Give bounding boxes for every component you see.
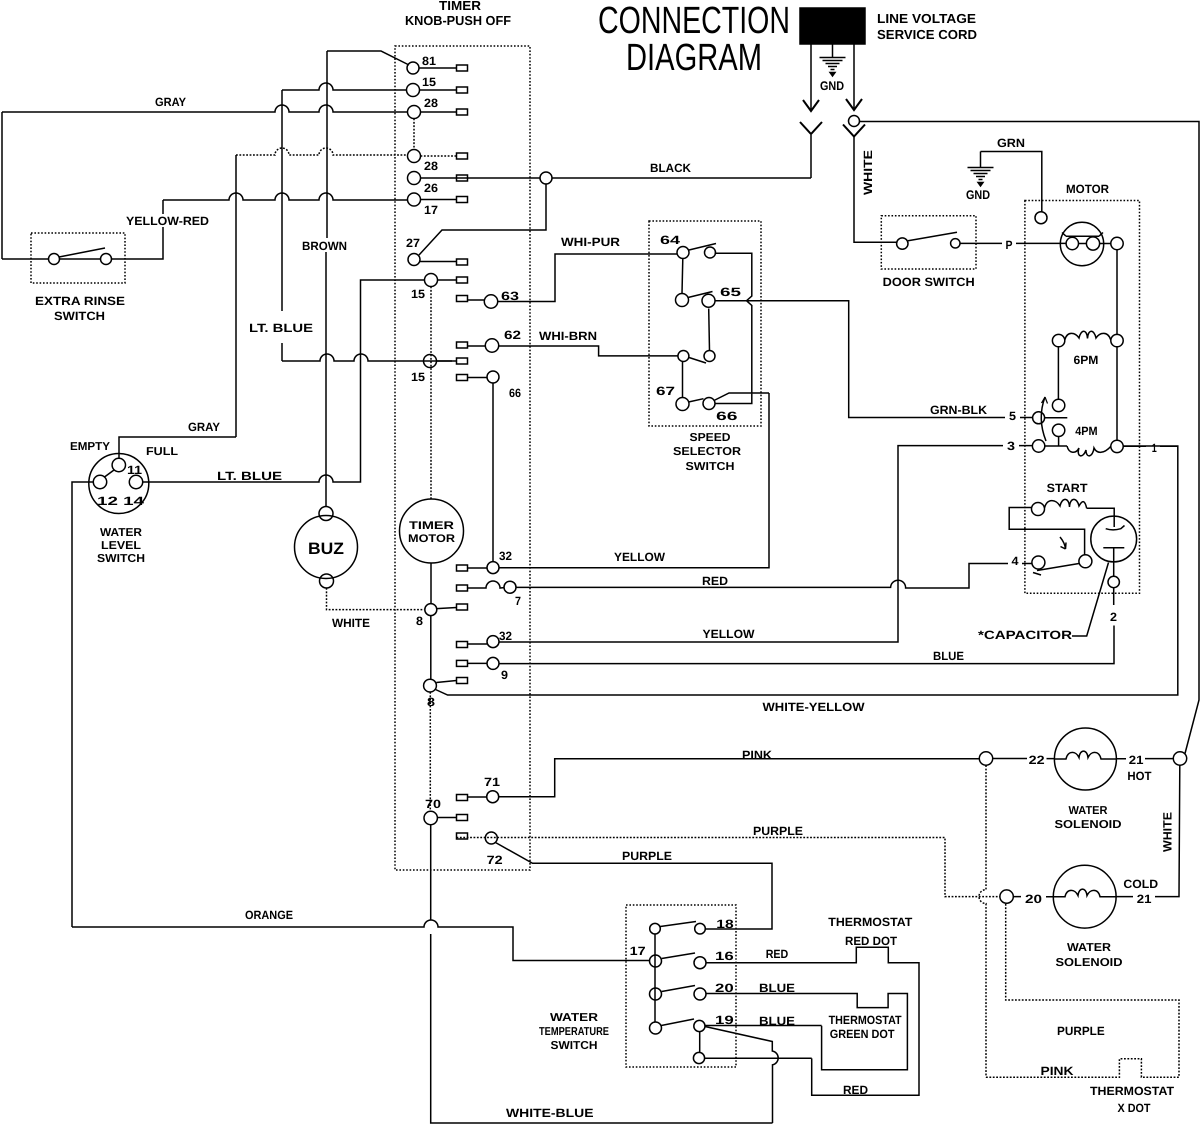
wire 15 mid down to timer motor [430,287,432,500]
wire PINK 22 to hot solenoid [993,758,1055,760]
wire BLACK drop [810,135,812,178]
door switch box [881,216,976,269]
svg-text:PURPLE: PURPLE [622,849,672,863]
wire BLUE 19 [705,1025,822,1027]
label label P door switch [1002,237,1016,250]
svg-text:20: 20 [715,981,734,995]
speed selector switch box [649,221,761,426]
svg-text:28: 28 [424,159,438,173]
plug arrow left [803,100,819,111]
ground symbol service cord [832,44,834,57]
timer connector tabs [457,65,468,71]
svg-text:GRAY: GRAY [155,95,186,109]
svg-text:COLD: COLD [1123,877,1158,891]
4PM winding left pin (motor pin 3) [1032,440,1044,452]
svg-text:GND: GND [966,188,990,202]
wire 8 lower diagonal to WHITE-YELLOW [436,446,1178,695]
start flyweight arrow [1060,537,1066,549]
door switch contact right [951,239,960,248]
svg-text:66: 66 [509,386,521,400]
wire LT BLUE y482 from pin 14 [143,280,425,482]
svg-text:28: 28 [424,96,438,110]
centrifugal contact upper [1052,399,1064,411]
svg-text:BUZ: BUZ [308,540,344,558]
svg-text:64: 64 [660,233,680,247]
svg-text:DIAGRAM: DIAGRAM [626,37,762,79]
water level switch pin 14 [129,475,142,488]
speed selector lever 62 [689,358,706,364]
label label 21 cold [1133,891,1155,904]
wire 71 PINK riser [499,759,980,797]
wire 81 to tab [419,67,456,69]
speed selector lever 64 [689,244,716,251]
svg-text:THERMOSTAT: THERMOSTAT [828,915,913,929]
4PM winding right pin [1111,440,1123,452]
buzzer bottom pin [320,574,334,588]
6PM winding left pin [1052,334,1064,346]
svg-text:19: 19 [715,1013,734,1027]
svg-text:TIMER: TIMER [439,0,482,13]
wire 28 upper to tab [421,111,457,113]
water temp pin L4 [650,1022,662,1034]
pin 5 stub [1045,417,1068,419]
svg-text:YELLOW: YELLOW [703,627,756,641]
wire GRN-BLK from 65 to motor pin 5 [716,301,1033,418]
svg-text:4: 4 [1012,554,1019,568]
motor brush bridge [1062,233,1103,237]
water temp lever 4 [661,1019,694,1026]
wire y259 to extra rinse switch [2,258,49,260]
water temp pin 19 [694,1020,705,1031]
svg-text:22: 22 [1029,753,1045,767]
svg-text:WHITE: WHITE [1161,812,1175,852]
cold solenoid coil [1054,889,1116,897]
speed selector lever 67-66 [689,399,704,402]
wire 15 lower to tab [437,360,457,362]
door switch contact left [897,238,908,249]
speed selector column 65R-62R [708,309,711,351]
wire y200 to timer 17 with jump arcs [163,193,408,200]
svg-text:3: 3 [1007,439,1015,453]
svg-text:BLUE: BLUE [759,1014,795,1028]
wire BLUE 20 green dot loop [706,994,907,1070]
service cord black block [800,8,865,44]
extra rinse switch contact left [49,254,60,265]
buzzer BUZ circle [295,516,358,579]
label label 5 [1005,409,1020,421]
speed selector pin 65 left [676,294,689,307]
wire hot 21 dashes [1116,758,1173,760]
svg-text:65: 65 [720,285,741,299]
plug arrow right [846,99,862,110]
6PM winding coil [1065,331,1111,340]
svg-text:WHI-PUR: WHI-PUR [561,235,620,249]
wire 62 WHI-BRN [499,346,678,356]
svg-text:WATER: WATER [100,527,143,539]
svg-text:LT. BLUE: LT. BLUE [217,469,282,483]
wire main winding link [1079,243,1111,245]
wire tab to 66 [468,377,488,379]
wire 28 lower to tab [421,155,457,157]
svg-text:PINK: PINK [742,748,772,762]
capacitor bottom pin [1108,576,1119,587]
svg-text:26: 26 [424,181,438,195]
svg-text:81: 81 [422,54,436,68]
wire y51 to timer 81 diagonal [327,51,409,65]
svg-text:9: 9 [501,668,508,682]
svg-text:SOLENOID: SOLENOID [1055,819,1122,831]
speed selector pin 65 right [702,294,715,307]
speed selector pin 67 [676,398,689,411]
svg-text:HOT: HOT [1127,769,1152,783]
wire 70 down to white-blue [431,825,773,1123]
water temp pin R5 [693,1052,704,1063]
water level switch circle [89,454,149,514]
wire YELLOW2 y642 to motor pin 3 [499,446,1032,642]
svg-text:BROWN: BROWN [302,239,347,253]
plug chevron right [843,125,865,137]
svg-text:5: 5 [1009,409,1016,423]
water temp pin 16 [694,957,706,969]
svg-text:WATER: WATER [1067,942,1112,954]
pin3 wire inside [1045,445,1067,447]
hot solenoid coil [1055,751,1117,759]
junction node 20 [1000,890,1013,903]
svg-text:LEVEL: LEVEL [101,540,141,552]
extra rinse switch box [31,233,125,283]
hot terminal 21 circle [1173,752,1186,765]
start switch lever [1037,564,1079,571]
svg-text:YELLOW: YELLOW [614,550,666,564]
svg-text:1: 1 [1152,441,1157,455]
svg-text:16: 16 [715,949,734,963]
wire 72 tab through circle PURPLE A [457,838,1000,897]
speed selector pin 62 left [678,351,689,362]
wire 27 to tab [420,261,456,263]
svg-text:EMPTY: EMPTY [70,441,110,453]
service cord right lead [853,44,855,108]
capacitor circle [1091,516,1137,562]
svg-text:WATER: WATER [1069,805,1109,817]
svg-text:BLUE: BLUE [933,649,964,663]
wire 8 lower down to 70 [429,692,431,811]
wire 66 out to x769 riser [714,393,769,401]
motor main circle [1060,222,1103,265]
wire 8 to tab [437,608,457,609]
motor ground pin [1035,212,1047,224]
start switch lever stub [1033,573,1041,576]
capacitor pin 2 dashed [1113,588,1115,605]
wire tab to 7 with jump arc [468,581,505,588]
water level switch lever 12-11 [105,470,115,477]
water level switch pin 12 [93,475,106,488]
wire tab to 32 lower [468,643,488,645]
wire RED y588 [516,564,1032,589]
wire 15 mid to tab [438,279,457,281]
wire extra rinse to x163 riser [112,200,163,259]
svg-text:15: 15 [422,75,436,89]
capacitor plate upper [1106,516,1125,530]
timer junction 15 lower [424,355,437,368]
speed selector pin 64 left [677,247,689,259]
motor right column upper [1116,250,1118,335]
timer junction 8 upper [425,604,437,616]
wire 20 to cold solenoid [1013,896,1053,898]
svg-text:27: 27 [406,236,420,250]
wire y155 to timer 28 lower with jump arcs [236,148,408,155]
svg-text:BLUE: BLUE [759,981,795,995]
svg-text:32: 32 [499,629,512,643]
svg-text:8: 8 [416,614,423,628]
timer terminal 27 [408,254,420,266]
svg-text:MOTOR: MOTOR [408,533,455,545]
wire 26 through tab to junction [421,177,541,179]
timer terminal 28 upper [408,106,421,119]
svg-text:62: 62 [504,328,521,342]
svg-text:SPEED: SPEED [690,432,731,444]
svg-text:71: 71 [484,775,500,789]
svg-text:7: 7 [515,594,521,608]
wire GRN to motor [981,152,1042,212]
start winding jog [1009,508,1084,555]
svg-text:GRAY: GRAY [188,420,220,434]
svg-text:17: 17 [630,944,646,958]
junction node 22 [979,752,992,765]
start winding left pin [1032,503,1045,516]
wire x282 vertical lower [281,343,283,361]
motor right column lower [1116,347,1118,440]
wire thermostat X DOT loop [986,903,1179,1077]
svg-text:WHITE-BLUE: WHITE-BLUE [506,1106,594,1120]
svg-text:CONNECTION: CONNECTION [598,0,790,42]
service cord ground node [849,116,860,127]
svg-text:18: 18 [716,917,734,931]
water temp left column [654,934,656,1022]
svg-text:BLACK: BLACK [650,161,691,175]
wire BLACK y178 [552,177,811,179]
label label 20 [1021,890,1046,904]
svg-text:63: 63 [501,289,519,303]
svg-text:THERMOSTAT: THERMOSTAT [1090,1084,1175,1098]
timer terminal 70 [424,811,437,824]
wire through extra rinse switch [60,258,101,260]
6PM winding right pin [1111,334,1123,346]
svg-text:WHITE: WHITE [332,616,370,630]
wire junction down to 27 [419,184,546,255]
svg-text:SWITCH: SWITCH [551,1040,598,1052]
wire 17 to tab [421,199,457,201]
wire WHITE top to right border [860,122,1200,754]
wire junction 8 to lower 8 [430,616,432,680]
svg-text:20: 20 [1025,892,1042,906]
label label 4 [1008,554,1022,566]
start winding coil [1045,499,1087,508]
label label YELLOW-RED [124,214,211,227]
wire 63 WHI-PUR riser [498,254,677,302]
timer terminal 32 lower [487,636,499,648]
wire BLUE y663.8 [499,626,1114,664]
water temp pin 17 [650,955,662,967]
start coil to capacitor [1087,508,1115,516]
svg-text:SERVICE CORD: SERVICE CORD [877,27,977,42]
svg-text:17: 17 [424,203,438,217]
contact lower to pin3 wire [1058,437,1060,446]
wire door switch to motor P [960,242,1066,244]
label label 3 [1003,439,1019,451]
timer terminal 26 [408,172,421,185]
svg-text:RED DOT: RED DOT [845,934,898,948]
timer terminal 81 [407,62,419,74]
svg-text:SELECTOR: SELECTOR [673,446,742,458]
wire tab to 32 upper [468,567,488,569]
svg-text:TEMPERATURE: TEMPERATURE [539,1026,609,1038]
water temperature switch box [626,905,736,1067]
centrifugal actuator arrow [1042,397,1048,404]
svg-text:*CAPACITOR: *CAPACITOR [978,628,1072,642]
speed selector pin 66 [703,398,715,410]
svg-text:KNOB-PUSH OFF: KNOB-PUSH OFF [405,13,511,28]
svg-text:21: 21 [1137,892,1152,906]
junction circle node 26-27 [540,172,552,184]
svg-text:THERMOSTAT: THERMOSTAT [829,1013,903,1027]
wire x282 vertical upper [281,90,283,311]
svg-text:15: 15 [411,287,425,301]
wire 70 to tab [437,817,456,819]
svg-text:ORANGE: ORANGE [245,908,293,922]
svg-text:70: 70 [425,797,441,811]
ground symbol GRN [980,152,982,168]
wire tab to 71 [468,796,487,798]
start switch contact left (pin 4) [1032,556,1045,569]
wire BROWN x326 upper [326,51,328,238]
centrifugal contact lower [1052,424,1064,436]
water temp pin L1 [650,923,661,934]
timer terminal 71 [487,791,499,803]
wire GRAY y112 with jump arcs [2,105,408,112]
capacitor plate lower [1103,548,1124,562]
capacitor pin stem [1113,562,1115,576]
svg-text:GRN: GRN [997,136,1025,150]
svg-text:GREEN DOT: GREEN DOT [830,1027,895,1041]
water temp lever 3 [662,986,695,992]
speed selector column 62L-67 [682,362,684,398]
timer terminal 72 [485,832,497,844]
wire tab to 63 [468,299,485,301]
svg-text:15: 15 [411,370,425,384]
wire 66 down to 32 [492,383,494,562]
timer terminal 17 [408,193,421,206]
wire timer motor to junction 8 [430,563,432,604]
water temp lever 17-16 [662,953,695,959]
timer terminal 9 [487,657,499,669]
svg-text:WATER: WATER [550,1012,599,1024]
wire ORANGE y927 with jump arc [72,920,650,961]
svg-text:66: 66 [716,409,738,423]
wire R5 to red dot riser [705,1057,812,1059]
timer terminal 15 upper [407,84,420,97]
svg-text:MOTOR: MOTOR [1066,182,1109,196]
wire RED 16 to red dot thermostat [706,947,919,1095]
svg-text:WHITE-YELLOW: WHITE-YELLOW [763,700,866,714]
wire 8 lower to tab [436,681,456,683]
svg-text:4PM: 4PM [1075,424,1097,438]
wire 15 upper to tab [420,89,457,91]
door switch lever [908,232,957,241]
svg-text:RED: RED [702,574,728,588]
svg-text:DOOR SWITCH: DOOR SWITCH [883,275,975,289]
start switch contact right [1079,555,1092,568]
svg-text:PURPLE: PURPLE [753,824,803,838]
speed selector column 64L-65L [681,259,684,294]
timer junction 15 mid [425,274,438,287]
wire y90 to timer 15 with jump arc [282,83,407,90]
wire 28 link dotted [413,119,415,150]
svg-text:RED: RED [843,1083,868,1097]
wire y361 to timer 15 junction with jump arcs [282,354,452,361]
water temp 19-R5 link [699,1032,701,1053]
water temp pin 20 [694,988,706,1000]
svg-text:P: P [1006,238,1013,252]
capacitor pointer line [1072,563,1109,637]
speed selector pin 62 right [704,351,715,362]
centrifugal actuator arc [1041,397,1046,441]
wire water level pin 12 to x72 [72,482,93,927]
timer terminal 7 [504,581,516,593]
svg-text:LT. BLUE: LT. BLUE [249,321,313,335]
svg-text:PURPLE: PURPLE [1057,1024,1105,1038]
svg-text:TIMER: TIMER [409,520,454,532]
timer motor circle [400,499,464,563]
svg-text:SOLENOID: SOLENOID [1056,957,1123,969]
timer terminal 32 upper [487,562,499,574]
wire x236 vertical [235,155,237,437]
motor brush left [1066,237,1078,249]
service cord left lead [810,44,812,109]
speed selector pin 64 right [705,247,716,258]
speed selector link 64R to 66 wire via x752 [715,253,752,394]
timer terminal 63 [484,295,497,308]
timer terminal 62 [485,339,498,352]
svg-text:11: 11 [127,463,142,477]
svg-text:PINK: PINK [1041,1064,1074,1078]
svg-text:X DOT: X DOT [1118,1101,1152,1115]
extra rinse switch contact right [101,254,112,265]
water level switch pin 11 [112,458,125,471]
svg-text:21: 21 [1129,753,1144,767]
plug chevron left [800,122,822,134]
svg-text:EXTRA RINSE: EXTRA RINSE [35,294,125,308]
svg-text:6PM: 6PM [1074,353,1099,367]
water temp pin L3 [650,988,662,1000]
timer junction 8 lower [424,679,437,692]
wire hot-cold right link [1116,765,1180,896]
wire BROWN x326 lower [325,252,327,507]
svg-text:GRN-BLK: GRN-BLK [930,403,987,417]
timer terminal 28 lower [408,150,421,163]
svg-text:67: 67 [656,384,675,398]
water temp pin 18 [695,923,706,934]
water temp lever 1 [660,922,696,927]
wire y437 GRAY to water level switch [119,437,236,459]
svg-text:2: 2 [1110,610,1117,624]
svg-text:START: START [1047,481,1088,495]
svg-text:FULL: FULL [146,446,178,458]
svg-text:SWITCH: SWITCH [686,461,735,473]
svg-text:32: 32 [499,549,512,563]
extra rinse switch lever [59,248,105,257]
4PM winding coil [1067,446,1111,456]
svg-text:WHITE: WHITE [861,150,875,195]
